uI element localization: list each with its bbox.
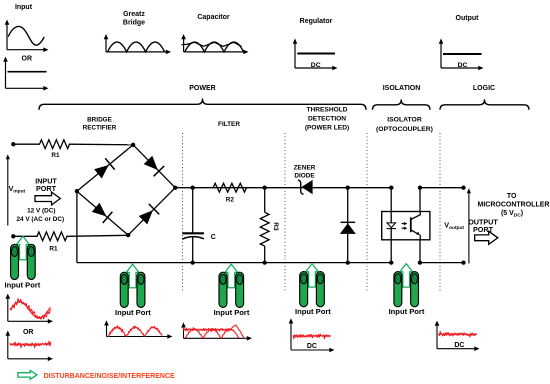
svg-text:OR: OR xyxy=(23,329,34,336)
svg-text:Regulator: Regulator xyxy=(300,18,333,25)
svg-text:R3: R3 xyxy=(272,222,279,231)
svg-text:Greatz: Greatz xyxy=(123,11,145,18)
svg-text:MICROCONTROLLER: MICROCONTROLLER xyxy=(478,202,550,209)
svg-text:ISOLATOR: ISOLATOR xyxy=(387,116,422,123)
svg-text:DC: DC xyxy=(307,343,317,350)
svg-text:Bridge: Bridge xyxy=(123,20,145,27)
svg-text:POWER: POWER xyxy=(189,85,215,92)
svg-text:Input: Input xyxy=(15,4,33,11)
svg-text:DC: DC xyxy=(458,62,468,69)
svg-text:DC: DC xyxy=(454,342,464,349)
svg-text:Input Port: Input Port xyxy=(115,308,151,317)
svg-text:R1: R1 xyxy=(49,246,58,253)
svg-text:DIODE: DIODE xyxy=(294,173,315,180)
svg-text:12 V (DC): 12 V (DC) xyxy=(27,208,55,215)
svg-text:(OPTOCOUPLER): (OPTOCOUPLER) xyxy=(376,126,433,133)
svg-text:24 V (AC or DC): 24 V (AC or DC) xyxy=(17,216,65,223)
svg-text:Capacitor: Capacitor xyxy=(197,14,230,21)
svg-text:ZENER: ZENER xyxy=(294,164,316,171)
svg-text:DISTURBANCE/NOISE/INTERFERENCE: DISTURBANCE/NOISE/INTERFERENCE xyxy=(44,373,175,380)
svg-text:LOGIC: LOGIC xyxy=(473,85,495,92)
svg-text:R2: R2 xyxy=(226,197,235,204)
svg-text:BRIDGE: BRIDGE xyxy=(87,116,113,123)
svg-text:THRESHOLD: THRESHOLD xyxy=(306,106,347,113)
svg-text:Output: Output xyxy=(456,15,480,22)
svg-text:Input Port: Input Port xyxy=(4,280,40,289)
svg-text:ISOLATION: ISOLATION xyxy=(383,85,421,92)
svg-text:Input Port: Input Port xyxy=(389,307,425,316)
svg-text:Input Port: Input Port xyxy=(295,307,331,316)
svg-text:R1: R1 xyxy=(51,152,60,159)
svg-text:Input Port: Input Port xyxy=(214,308,250,317)
svg-text:TO: TO xyxy=(507,193,517,200)
svg-text:OR: OR xyxy=(22,56,33,63)
svg-text:(POWER LED): (POWER LED) xyxy=(305,124,349,131)
svg-text:DC: DC xyxy=(311,62,321,69)
svg-text:C: C xyxy=(211,234,216,241)
svg-text:FILTER: FILTER xyxy=(218,121,240,128)
svg-text:PORT: PORT xyxy=(36,184,57,193)
svg-text:RECTIFIER: RECTIFIER xyxy=(83,124,117,131)
svg-text:DETECTION: DETECTION xyxy=(308,115,346,122)
